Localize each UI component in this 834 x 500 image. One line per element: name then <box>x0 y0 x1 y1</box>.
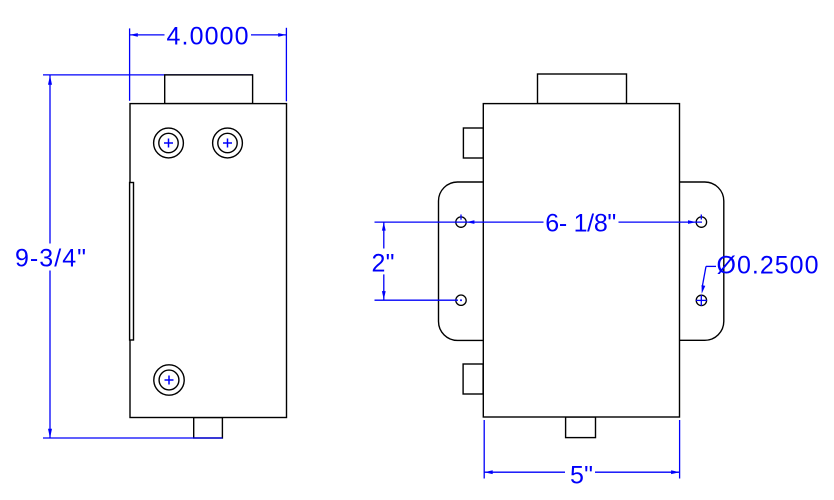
left view: main body <box>130 104 287 418</box>
leader for hole diameter <box>696 266 716 305</box>
screw S2 (top-right) <box>213 128 243 158</box>
svg-text:Ø0.2500: Ø0.2500 <box>717 252 819 280</box>
right view: top-left notch <box>463 128 483 158</box>
hole H2 center point <box>460 299 462 301</box>
dimension 4.0000 <box>130 28 287 102</box>
svg-text:2": 2" <box>372 250 395 278</box>
dimension 6-1/8" line <box>375 215 703 223</box>
right view: top tab <box>538 74 627 104</box>
screw S2 center mark <box>223 139 232 148</box>
left view: bottom tab <box>194 418 223 439</box>
dimension 2" <box>375 222 459 300</box>
svg-text:9-3/4": 9-3/4" <box>15 245 86 273</box>
svg-text:5": 5" <box>570 461 593 489</box>
right view: main body <box>483 104 679 417</box>
svg-text:6- 1/8": 6- 1/8" <box>545 210 616 238</box>
right view: bottom-left notch <box>463 364 483 394</box>
screw S3 (bottom) <box>154 365 184 395</box>
right view: bottom tab <box>566 417 596 438</box>
right view: right flange <box>680 182 724 340</box>
left view: top tab <box>165 75 253 104</box>
dimension 5" <box>484 420 679 479</box>
right view: left flange <box>439 182 484 340</box>
screw S1 center mark <box>164 139 173 148</box>
hole H1 (left flange top) <box>456 217 466 227</box>
hole H2 (left flange bottom) <box>456 295 466 305</box>
screw S1 (top-left) <box>154 128 184 158</box>
svg-text:4.0000: 4.0000 <box>167 23 249 51</box>
dimension 9-3/4" <box>49 75 51 438</box>
dimension 9-3/4" top extension line <box>43 74 253 76</box>
dimension 9-3/4" bottom extension line <box>43 437 222 439</box>
left view: side slot <box>130 183 134 341</box>
screw S3 center mark <box>165 376 174 385</box>
hole H3 (right flange top) <box>696 217 706 227</box>
hole H4 (right flange bottom) <box>696 295 706 305</box>
